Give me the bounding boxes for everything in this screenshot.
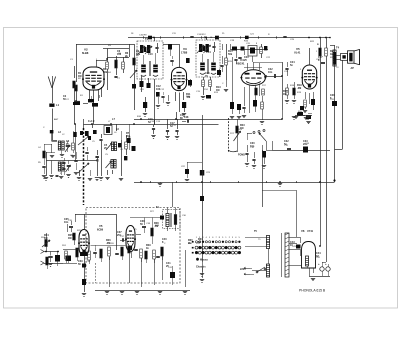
svg-text:Chassis: Chassis: [196, 266, 206, 269]
svg-text:6LB8: 6LB8: [82, 51, 89, 55]
svg-text:PHONOLA 615 B: PHONOLA 615 B: [299, 289, 326, 293]
svg-text:+: +: [318, 262, 320, 266]
svg-text:1M: 1M: [68, 237, 71, 240]
svg-text:25n: 25n: [117, 234, 122, 237]
svg-text:UY41: UY41: [307, 230, 314, 233]
svg-text:5n: 5n: [170, 125, 173, 128]
svg-text:17B8: 17B8: [181, 51, 188, 55]
svg-text:C.A.V.: C.A.V.: [88, 120, 95, 123]
svg-text:20k: 20k: [126, 135, 131, 138]
svg-text:10n: 10n: [250, 145, 255, 148]
svg-text:C10 R8: C10 R8: [139, 35, 147, 37]
svg-text:.3M: .3M: [106, 242, 110, 245]
svg-text:6CB6: 6CB6: [97, 229, 104, 232]
svg-text:AP: AP: [351, 67, 355, 70]
svg-text:5n: 5n: [148, 121, 151, 124]
svg-text:1M: 1M: [283, 93, 286, 96]
svg-text:1M: 1M: [44, 237, 47, 240]
svg-text:V6: V6: [301, 229, 305, 233]
svg-text:FONO: FONO: [238, 154, 245, 157]
svg-text:C10: C10: [148, 53, 153, 56]
svg-text:100: 100: [156, 88, 161, 91]
svg-text:10n: 10n: [64, 221, 69, 224]
svg-text:20n: 20n: [303, 143, 308, 146]
svg-text:10n: 10n: [268, 71, 273, 74]
svg-text:1M: 1M: [240, 127, 243, 130]
svg-text:50k: 50k: [136, 53, 141, 56]
svg-text:C14: C14: [206, 51, 211, 54]
svg-text:UL41: UL41: [294, 51, 301, 55]
svg-text:C14 R12: C14 R12: [197, 34, 206, 36]
svg-text:220V: 220V: [240, 268, 246, 271]
svg-text:1M: 1M: [216, 89, 219, 92]
svg-text:ANT: ANT: [54, 118, 59, 121]
svg-text:40k: 40k: [103, 71, 108, 74]
svg-text:Massa: Massa: [200, 259, 208, 262]
svg-text:V3: V3: [183, 47, 187, 51]
svg-text:.5M: .5M: [154, 225, 158, 228]
svg-text:V5: V5: [99, 224, 103, 228]
svg-text:.3M: .3M: [297, 87, 301, 90]
svg-text:5n: 5n: [290, 64, 293, 67]
svg-text:POT: POT: [230, 133, 235, 135]
svg-text:V2: V2: [84, 48, 88, 52]
svg-text:5n: 5n: [284, 143, 287, 146]
svg-text:.5M: .5M: [186, 96, 190, 99]
svg-text:UBC41: UBC41: [236, 62, 245, 66]
svg-text:100: 100: [117, 53, 122, 56]
svg-text:C18: C18: [184, 116, 189, 119]
svg-text:50k: 50k: [228, 53, 233, 56]
svg-text:1M: 1M: [78, 75, 81, 78]
svg-text:V5: V5: [296, 47, 300, 51]
